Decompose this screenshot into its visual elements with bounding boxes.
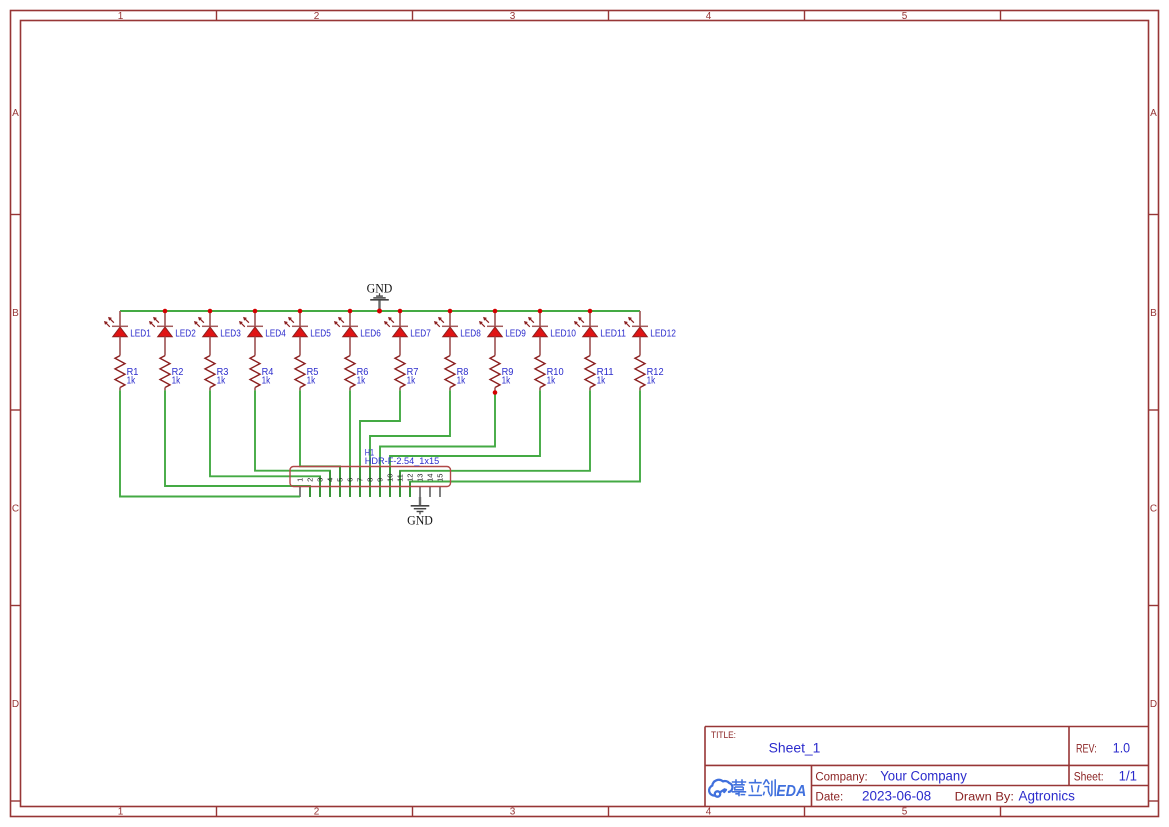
svg-text:2: 2 — [314, 11, 320, 22]
svg-text:12: 12 — [406, 474, 415, 482]
svg-text:LED2: LED2 — [175, 328, 196, 339]
svg-text:1k: 1k — [457, 376, 466, 387]
svg-text:LED3: LED3 — [220, 328, 241, 339]
svg-text:13: 13 — [416, 474, 425, 482]
svg-text:Your Company: Your Company — [880, 768, 967, 783]
svg-text:GND: GND — [367, 281, 393, 296]
svg-text:1k: 1k — [172, 376, 181, 387]
svg-text:LED6: LED6 — [360, 328, 381, 339]
svg-text:EDA: EDA — [776, 783, 806, 800]
svg-text:4: 4 — [706, 11, 712, 22]
svg-text:1/1: 1/1 — [1119, 768, 1137, 783]
svg-text:1k: 1k — [407, 376, 416, 387]
svg-text:HDR-F-2.54_1x15: HDR-F-2.54_1x15 — [365, 456, 439, 467]
svg-text:LED5: LED5 — [310, 328, 331, 339]
svg-text:REV:: REV: — [1076, 743, 1097, 755]
svg-text:10: 10 — [386, 474, 395, 482]
svg-text:C: C — [1150, 503, 1157, 514]
svg-text:LED7: LED7 — [410, 328, 431, 339]
svg-text:4: 4 — [706, 807, 712, 818]
svg-text:6: 6 — [346, 478, 355, 482]
svg-text:1k: 1k — [262, 376, 271, 387]
svg-text:1k: 1k — [357, 376, 366, 387]
svg-text:A: A — [1150, 108, 1157, 119]
svg-text:A: A — [12, 108, 19, 119]
svg-text:1k: 1k — [597, 376, 606, 387]
svg-text:9: 9 — [376, 478, 385, 482]
svg-text:11: 11 — [396, 474, 405, 482]
svg-text:LED9: LED9 — [505, 328, 526, 339]
svg-text:LED1: LED1 — [130, 328, 151, 339]
svg-text:15: 15 — [436, 474, 445, 482]
svg-text:3: 3 — [510, 11, 516, 22]
svg-text:Sheet_1: Sheet_1 — [769, 740, 821, 755]
svg-text:1k: 1k — [502, 376, 511, 387]
svg-text:Date:: Date: — [815, 792, 843, 804]
svg-text:1: 1 — [296, 478, 305, 482]
svg-text:2023-06-08: 2023-06-08 — [862, 789, 931, 804]
svg-text:8: 8 — [366, 478, 375, 482]
svg-text:5: 5 — [902, 11, 908, 22]
svg-text:1k: 1k — [307, 376, 316, 387]
svg-text:B: B — [12, 308, 19, 319]
svg-text:B: B — [1150, 308, 1157, 319]
svg-text:5: 5 — [902, 807, 908, 818]
svg-text:C: C — [12, 503, 19, 514]
svg-text:3: 3 — [510, 807, 516, 818]
svg-text:2: 2 — [306, 478, 315, 482]
svg-text:2: 2 — [314, 807, 320, 818]
svg-text:LED12: LED12 — [650, 328, 676, 339]
svg-text:1: 1 — [118, 807, 124, 818]
svg-text:D: D — [12, 699, 19, 710]
svg-text:1k: 1k — [127, 376, 136, 387]
svg-text:1k: 1k — [217, 376, 226, 387]
svg-text:4: 4 — [326, 478, 335, 482]
svg-text:Sheet:: Sheet: — [1074, 771, 1104, 783]
svg-text:TITLE:: TITLE: — [711, 730, 736, 741]
svg-text:1.0: 1.0 — [1113, 740, 1130, 755]
svg-text:1: 1 — [118, 11, 124, 22]
svg-text:LED10: LED10 — [550, 328, 576, 339]
svg-text:Drawn By:: Drawn By: — [955, 792, 1014, 804]
svg-text:14: 14 — [426, 474, 435, 482]
svg-text:Agtronics: Agtronics — [1019, 789, 1076, 804]
svg-text:1k: 1k — [647, 376, 656, 387]
svg-text:D: D — [1150, 699, 1157, 710]
svg-text:5: 5 — [336, 478, 345, 482]
svg-text:3: 3 — [316, 478, 325, 482]
svg-text:LED11: LED11 — [600, 328, 626, 339]
svg-text:7: 7 — [356, 478, 365, 482]
svg-text:Company:: Company: — [815, 771, 867, 783]
svg-text:1k: 1k — [547, 376, 556, 387]
svg-text:LED8: LED8 — [460, 328, 481, 339]
svg-text:GND: GND — [407, 512, 433, 527]
svg-text:LED4: LED4 — [265, 328, 286, 339]
